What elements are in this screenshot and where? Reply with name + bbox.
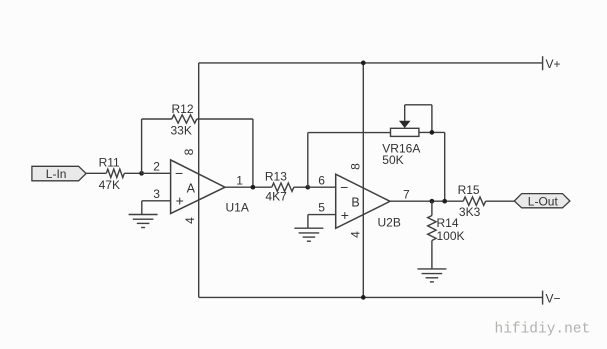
wire: right power vertical (V+ to V- through U2B pins 8/4) <box>362 63 364 298</box>
svg-text:L-In: L-In <box>46 167 67 181</box>
svg-text:R11: R11 <box>99 155 120 169</box>
svg-text:U1A: U1A <box>226 200 249 214</box>
svg-text:R15: R15 <box>458 183 480 197</box>
wire: node B to U2B pin 6 <box>308 186 336 188</box>
wire: VR feedback horizontal to pot <box>308 132 391 134</box>
potentiometer VR16A wiper arrow <box>399 121 411 128</box>
svg-text:+: + <box>341 207 349 223</box>
junction: top rail node <box>361 61 366 66</box>
ground (U1A pin 3) <box>129 215 158 228</box>
op-amp U1A <box>171 160 225 214</box>
svg-text:6: 6 <box>318 174 325 188</box>
resistor R14 <box>428 216 436 241</box>
potentiometer VR16A body <box>391 128 419 136</box>
svg-text:V−: V− <box>546 291 561 305</box>
svg-text:4K7: 4K7 <box>265 190 287 204</box>
svg-text:R13: R13 <box>265 169 287 183</box>
junction: output node (feedback tap) <box>442 199 447 204</box>
wire: R11 to node A <box>124 172 141 174</box>
svg-text:4: 4 <box>349 231 363 238</box>
resistor R13 <box>272 183 294 191</box>
junction: output node (R14 tap) <box>430 199 435 204</box>
power symbol V+ <box>543 56 561 71</box>
wire: VR feedback riser (node B up) <box>307 133 309 188</box>
svg-text:7: 7 <box>403 187 410 201</box>
wire: wiper loop top <box>405 104 432 106</box>
svg-text:B: B <box>351 196 359 210</box>
wire: V- bottom rail <box>199 296 543 298</box>
wire: node A to U1A pin 2 <box>142 172 171 174</box>
wire: R14 to ground <box>431 241 433 269</box>
wire: wiper loop drop <box>431 105 433 133</box>
node B (U2B pin 6 junction) <box>305 185 310 190</box>
op-amp U2B <box>336 174 390 228</box>
wire: pot right terminal <box>419 131 445 133</box>
junction: bottom rail node <box>361 295 366 300</box>
svg-text:1: 1 <box>236 173 243 187</box>
wire: U1A pin 3 <box>142 200 171 202</box>
power symbol V- <box>543 291 561 306</box>
junction: U1A output node <box>251 185 256 190</box>
svg-text:2: 2 <box>153 159 160 173</box>
svg-text:hifidiy.net: hifidiy.net <box>495 322 591 338</box>
ground (U2B pin 5) <box>294 228 323 241</box>
port L-In <box>32 166 86 181</box>
node A (input junction) <box>139 171 144 176</box>
wire: feedback top right segment <box>197 118 253 120</box>
port L-Out <box>514 194 570 209</box>
svg-text:4: 4 <box>183 217 197 224</box>
svg-text:47K: 47K <box>99 178 120 192</box>
wire: R15 to L-Out <box>486 200 515 202</box>
svg-text:−: − <box>175 165 183 181</box>
svg-text:8: 8 <box>349 163 363 170</box>
wire: R14 stem <box>431 201 433 215</box>
resistor R15 <box>463 197 485 205</box>
svg-text:U2B: U2B <box>378 216 401 230</box>
svg-text:V+: V+ <box>546 57 561 71</box>
wire: U2B pin 5 <box>308 214 336 216</box>
ground (R14) <box>417 269 446 282</box>
resistor R11 <box>106 169 124 177</box>
svg-text:33K: 33K <box>171 124 192 138</box>
resistor R12 <box>172 115 197 123</box>
svg-text:3K3: 3K3 <box>459 205 481 219</box>
wire: feedback top left segment <box>142 118 172 120</box>
svg-text:8: 8 <box>182 148 196 155</box>
svg-text:R12: R12 <box>172 102 194 116</box>
svg-text:−: − <box>340 179 348 195</box>
wire: U1A output pin 1 <box>225 186 272 188</box>
svg-text:3: 3 <box>153 187 160 201</box>
svg-text:L-Out: L-Out <box>528 194 559 208</box>
wire: R13 to node B <box>294 186 308 188</box>
wire: feedback drop to output <box>444 132 446 201</box>
svg-text:5: 5 <box>318 201 325 215</box>
wire: pin 5 ground stem <box>307 215 309 229</box>
wire: V+ top rail <box>199 62 543 64</box>
wire: L-In to R11 <box>86 172 106 174</box>
svg-text:50K: 50K <box>382 153 403 167</box>
junction: wiper/terminal node <box>430 130 435 135</box>
svg-text:100K: 100K <box>437 229 465 243</box>
wire: feedback riser left (node A up) <box>141 119 143 173</box>
wire: feedback drop to U1A output <box>252 119 254 187</box>
svg-text:+: + <box>176 193 184 209</box>
wire: U2B output pin 7 <box>390 200 463 202</box>
wire: left power vertical (V+ to V- through U1A pins 8/4) <box>198 63 200 298</box>
wire: wiper stem up <box>404 105 406 121</box>
wire: pin 3 ground stem <box>141 201 143 215</box>
svg-text:A: A <box>187 182 196 196</box>
